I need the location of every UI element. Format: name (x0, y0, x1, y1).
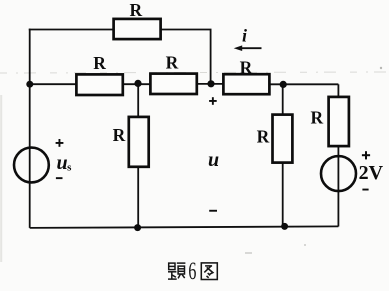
svg-text:2V: 2V (359, 162, 384, 184)
svg-text:R: R (129, 0, 142, 20)
svg-text:6: 6 (188, 258, 196, 285)
svg-text:R: R (257, 126, 270, 146)
svg-text:u: u (208, 149, 219, 171)
svg-text:i: i (242, 26, 247, 46)
svg-text:u: u (56, 152, 67, 174)
svg-text:R: R (166, 53, 179, 73)
svg-text:s: s (67, 162, 72, 174)
svg-text:R: R (93, 53, 106, 73)
svg-text:R: R (113, 125, 126, 145)
svg-text:R: R (240, 57, 253, 77)
svg-text:R: R (310, 107, 323, 127)
